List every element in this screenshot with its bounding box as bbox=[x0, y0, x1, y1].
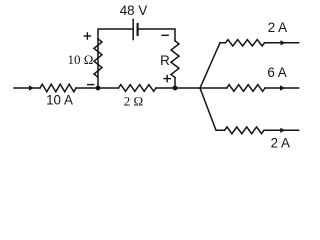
wire: left lead into circuit bbox=[14, 87, 40, 89]
svg-text:R: R bbox=[160, 53, 170, 68]
battery 48 V plates bbox=[132, 20, 134, 40]
current arrow 10 A bbox=[29, 85, 34, 90]
svg-text:48 V: 48 V bbox=[120, 3, 148, 18]
wire: 2-ohm resistor to node B bbox=[156, 87, 175, 89]
polarity + (bottom of R) bbox=[163, 78, 171, 79]
current arrow 2 A (top) bbox=[281, 40, 286, 45]
svg-text:10 A: 10 A bbox=[46, 93, 73, 108]
current arrow 2 A (bottom) bbox=[280, 128, 285, 133]
svg-text:2 A: 2 A bbox=[268, 20, 287, 35]
polarity - (top of R) bbox=[161, 35, 169, 36]
resistor (10 A branch, unlabeled) bbox=[40, 84, 76, 92]
wire: diagonal down to bottom branch bbox=[200, 88, 225, 130]
polarity - (bottom of 10-ohm) bbox=[87, 84, 94, 85]
resistor 10 ohm (vertical) bbox=[94, 39, 102, 77]
resistor 2 ohm bbox=[118, 85, 156, 92]
resistor (bottom 2 A branch) bbox=[225, 127, 265, 134]
wire: top-left corner to battery + plate bbox=[98, 29, 133, 39]
wire: top branch output lead bbox=[265, 42, 299, 44]
polarity + (top of 10-ohm) bbox=[84, 35, 92, 36]
resistor (middle 6 A branch) bbox=[227, 85, 265, 92]
svg-text:2 A: 2 A bbox=[271, 136, 290, 151]
svg-text:10 Ω: 10 Ω bbox=[68, 52, 94, 67]
wire: resistor to node A bbox=[76, 87, 98, 89]
wire: middle branch to resistor bbox=[200, 87, 227, 89]
wire: diagonal up to top branch bbox=[200, 43, 220, 88]
wire: bottom branch output lead bbox=[264, 129, 299, 131]
svg-text:2 Ω: 2 Ω bbox=[124, 94, 143, 109]
svg-text:6 A: 6 A bbox=[267, 65, 286, 80]
wire: battery - plate to top-right corner bbox=[139, 29, 175, 41]
wire: node B to split junction bbox=[175, 87, 200, 89]
wire: R bottom to node B bbox=[174, 78, 176, 89]
node A junction dot bbox=[96, 86, 101, 91]
wire: middle branch output lead bbox=[265, 87, 299, 89]
node B junction dot bbox=[173, 86, 178, 91]
resistor R (vertical) bbox=[171, 41, 179, 78]
wire: left vertical riser (node A up to top wire) bbox=[97, 39, 99, 88]
current arrow 6 A (middle) bbox=[280, 85, 285, 90]
wire: node A to 2-ohm resistor bbox=[98, 87, 119, 89]
resistor (top 2 A branch) bbox=[220, 40, 265, 46]
